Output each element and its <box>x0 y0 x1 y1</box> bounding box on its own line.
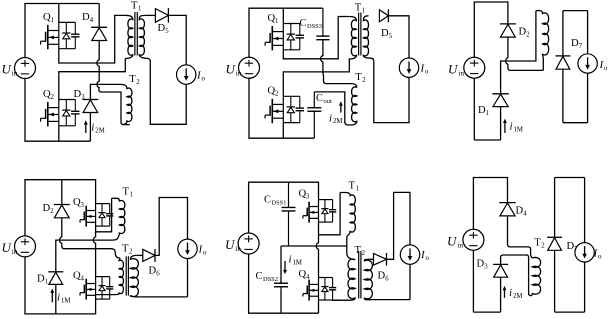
wire Io top lead (3) <box>587 11 589 54</box>
label C_DSS2 <box>256 271 278 283</box>
wire Io bottom (5) <box>409 264 411 299</box>
wire Io bottom lead (3) <box>587 73 589 123</box>
label i2M <box>91 122 104 135</box>
inductor T2 winding (6) <box>531 257 541 295</box>
wire node to Q4 drain (4) <box>95 249 97 277</box>
svg-text:D: D <box>381 28 389 39</box>
label Io (4) <box>198 244 208 257</box>
circuit 5: stacked switches with divider capacitors <box>225 181 430 314</box>
label T2 (4) <box>122 244 133 256</box>
wire D4 anode down with hops to T2 bottom <box>97 41 130 125</box>
wire T1 bypass to Q3 source (4) <box>96 198 112 232</box>
voltage source Uin (4) <box>15 236 36 257</box>
transformer T2 winding (2) <box>352 87 357 125</box>
svg-text:2: 2 <box>362 77 366 84</box>
wire T1 bottom exit to H1 (4) <box>113 237 119 240</box>
svg-text:1: 1 <box>486 110 489 117</box>
diode D3 <box>83 100 99 113</box>
wire Io top lead (6) <box>584 178 586 243</box>
svg-text:DSS2: DSS2 <box>263 276 278 283</box>
svg-text:C: C <box>264 195 271 206</box>
wire Q3 source down with hop joining node (4) <box>93 226 95 249</box>
svg-text:3: 3 <box>484 264 488 271</box>
svg-text:T: T <box>122 244 129 255</box>
wire T1 primary bottom to Q2 drain (2) <box>283 60 349 97</box>
wire Uin- down (6) <box>472 250 474 312</box>
label Uin (3) <box>448 62 464 78</box>
wire Q2 source to bottom rail (2) <box>282 123 284 139</box>
diode D2 <box>500 24 516 37</box>
current arrow i2M <box>84 120 88 133</box>
transistor Q3 <box>80 204 113 227</box>
svg-text:o: o <box>426 255 430 262</box>
capacitor C_DSS1 <box>282 182 296 246</box>
label D1 (4) <box>37 274 48 286</box>
transistor Q1 with body diode and capacitor <box>41 22 80 49</box>
svg-text:4: 4 <box>90 17 94 24</box>
svg-text:i: i <box>510 121 513 133</box>
wire Q4 source to bottom rail (4) <box>95 299 97 314</box>
transformer T2 core (5) <box>359 251 361 299</box>
svg-text:T: T <box>131 1 138 12</box>
transformer T1 primary winding <box>125 15 133 58</box>
svg-text:1: 1 <box>362 8 365 15</box>
current source Io (5) <box>400 245 419 264</box>
wire D7 anode down (6) <box>554 250 556 312</box>
wire output loop bottom (3) <box>563 122 588 124</box>
label Q1 (2) <box>268 13 279 25</box>
label i1M <box>510 121 523 134</box>
wire T1 primary bottom to Q2 drain <box>59 59 126 100</box>
wire Uin+ to top rail <box>25 4 99 59</box>
diode D2 (4) <box>54 205 70 218</box>
svg-text:6: 6 <box>385 276 389 283</box>
wire winding top bypass to D1 <box>501 11 536 94</box>
svg-text:T: T <box>123 187 130 198</box>
svg-text:1: 1 <box>45 279 48 286</box>
transformer T2 winding <box>121 84 132 124</box>
svg-text:2: 2 <box>362 250 366 257</box>
diode D1 <box>492 94 508 107</box>
wire D6 cathode loop (5) <box>387 192 411 259</box>
diode D4 <box>91 27 107 40</box>
transformer T1 core (2) <box>359 13 361 56</box>
voltage source Uin (3) <box>464 57 485 78</box>
svg-text:1: 1 <box>130 192 133 199</box>
svg-text:D: D <box>571 38 579 49</box>
capacitor C_DSS3 <box>316 8 329 40</box>
svg-text:T: T <box>349 181 356 192</box>
diode D5 <box>155 8 168 23</box>
wire Uin- down to bottom rail <box>25 78 90 141</box>
wire output loop top (3) <box>563 10 588 12</box>
svg-text:2M: 2M <box>513 293 522 300</box>
wire Q1 drain (2) <box>282 8 284 23</box>
svg-text:DSS1: DSS1 <box>272 200 287 207</box>
diode D3 (6) <box>493 264 508 277</box>
svg-text:2M: 2M <box>95 127 104 134</box>
capacitor C_DSS2 <box>274 281 288 289</box>
wire D2 anode down with hop to winding bottom <box>506 37 544 70</box>
transformer T1 core <box>135 12 137 56</box>
wire D3 cathode up and right to T2 top <box>90 84 120 99</box>
svg-text:1M: 1M <box>61 298 70 305</box>
label T1 (4) <box>123 187 133 199</box>
label i1M (5) <box>289 254 302 267</box>
label Q1 <box>43 12 54 24</box>
circuit 3: magnetizing branch with clamp diodes D1 D2 <box>448 2 608 140</box>
label Io (2) <box>420 63 430 76</box>
label Io (5) <box>420 249 430 262</box>
wire output loop top (6) <box>555 177 585 179</box>
wire bypass corner to T2 bottom <box>345 122 352 126</box>
label D5 <box>158 23 170 35</box>
label D3 <box>74 89 86 101</box>
label T1 (2) <box>355 3 365 15</box>
wire D6 cathode up and over to Io (4) <box>155 198 188 256</box>
wire C_DSS2 top lead corner (5) <box>280 246 282 283</box>
wire D2 anode down with hop to node (4) <box>60 218 120 258</box>
wire bottom rail (6) <box>473 311 500 313</box>
current arrow i1M <box>503 119 507 133</box>
svg-text:T: T <box>355 3 362 14</box>
transformer T2 primary winding (5) <box>333 259 356 300</box>
svg-text:i: i <box>329 113 332 125</box>
svg-text:in: in <box>457 241 463 250</box>
current source Io (3) <box>578 54 597 73</box>
inductor T1 winding (4) <box>112 198 125 237</box>
wire Uin+ to top rail (4) <box>25 180 96 237</box>
svg-text:in: in <box>12 247 18 256</box>
svg-text:i: i <box>91 122 94 134</box>
label Q4 (5) <box>299 269 311 281</box>
svg-text:D: D <box>567 241 575 252</box>
svg-text:in: in <box>12 69 18 78</box>
svg-text:2: 2 <box>275 91 279 98</box>
label Q2 (2) <box>268 86 280 98</box>
svg-text:out: out <box>324 98 332 105</box>
label D5 (2) <box>381 28 393 40</box>
wire Q1 drain <box>58 4 60 23</box>
transistor Q2 (2) <box>265 96 304 123</box>
label D7 <box>571 38 583 50</box>
wire output loop bottom (2) <box>374 61 409 122</box>
label C_out <box>316 93 332 105</box>
wire C_DSS3 bottom with hop to T2 top <box>321 40 357 88</box>
label Io (6) <box>593 248 603 261</box>
label D6 (5) <box>378 271 390 283</box>
svg-text:1: 1 <box>356 186 359 193</box>
capacitor C_out <box>307 92 321 138</box>
svg-text:T: T <box>355 72 362 83</box>
label Q3 <box>73 197 85 209</box>
wire D3 cathode up to bypass (6) <box>501 255 532 296</box>
transistor Q1 (2) <box>265 24 304 51</box>
wire D1 cathode to H1 (4) <box>56 240 113 272</box>
current arrow i2M (2) <box>339 101 343 112</box>
svg-text:in: in <box>458 69 464 78</box>
circuit 4: two-transformer forward with clamp diodes <box>2 180 208 314</box>
voltage source Uin (5) <box>238 233 259 254</box>
svg-text:D: D <box>158 23 166 34</box>
wire Q1 source to T1 primary return <box>59 15 126 63</box>
svg-text:1: 1 <box>138 6 141 13</box>
label i2M (6) <box>509 287 522 300</box>
transformer T1 secondary winding <box>139 15 150 61</box>
svg-text:o: o <box>425 69 429 76</box>
label Uin (2) <box>226 62 242 78</box>
wire output loop bottom <box>150 62 186 125</box>
svg-text:D: D <box>519 27 527 38</box>
inductor winding (3) <box>536 11 549 71</box>
wire Io bottom lead (6) <box>584 262 586 312</box>
circuit 2: flyback with snubber capacitors <box>226 3 430 139</box>
svg-text:D: D <box>516 206 524 217</box>
label Uin (4) <box>2 240 18 256</box>
label D3 (6) <box>477 259 489 271</box>
transformer T2 core (4) <box>126 256 128 295</box>
transformer T2 secondary winding (4) <box>130 255 187 297</box>
svg-text:1: 1 <box>275 18 278 25</box>
transformer T1 primary winding (2) <box>349 17 356 61</box>
label Uin <box>2 62 18 78</box>
wire Q4 cell to T2 primary bottom (5) <box>333 299 340 301</box>
transistor Q3 (5) <box>303 200 336 223</box>
svg-text:o: o <box>202 76 206 83</box>
label i1M (4) <box>57 292 70 305</box>
voltage source Uin (2) <box>239 57 260 78</box>
svg-text:2: 2 <box>136 79 140 86</box>
current source Io (6) <box>575 243 594 262</box>
voltage source Uin <box>15 58 36 79</box>
inductor T1 winding (5) <box>340 193 355 260</box>
svg-text:1M: 1M <box>514 127 523 134</box>
wire D1 anode to bottom rail (4) <box>55 284 57 314</box>
svg-text:2: 2 <box>541 243 545 250</box>
svg-text:5: 5 <box>165 28 169 35</box>
diode D6 (5) <box>374 253 387 266</box>
wire D7 cathode lead (3) <box>562 11 564 56</box>
wire H_b cap node (5) <box>281 245 347 247</box>
label C_DSS1 <box>264 195 286 207</box>
svg-text:5: 5 <box>389 33 393 40</box>
wire T2 secondary top to D6 (4) <box>136 254 143 256</box>
svg-text:1: 1 <box>51 17 54 24</box>
wire Uin- to bottom rail (2) <box>249 78 314 138</box>
current arrow i1M (4) <box>50 289 54 303</box>
svg-text:T: T <box>129 74 136 85</box>
current source Io (4) <box>178 239 197 258</box>
wire top rail to D4 <box>98 4 100 28</box>
svg-text:2: 2 <box>129 249 133 256</box>
svg-text:D: D <box>74 89 82 100</box>
wire D5 cathode to Io <box>168 15 186 65</box>
svg-text:o: o <box>598 254 602 261</box>
wire D2 cathode lead (4) <box>61 180 63 205</box>
label D4 (6) <box>516 206 528 218</box>
wire Q4 source to bottom rail (5) <box>318 300 320 313</box>
label T2 (5) <box>355 245 366 257</box>
label Uin (6) <box>447 234 463 250</box>
label T2 (6) <box>534 238 545 250</box>
wire D3 anode to bottom rail (6) <box>500 277 502 312</box>
svg-text:o: o <box>203 250 207 257</box>
svg-text:2: 2 <box>51 94 55 101</box>
svg-text:3: 3 <box>306 194 310 201</box>
label Uin (5) <box>225 237 241 253</box>
svg-text:i: i <box>509 287 512 299</box>
circuit 6: magnetizing branch with clamp diodes D3 D4 <box>447 178 602 313</box>
current arrow i2M (6) <box>503 286 507 298</box>
svg-text:D: D <box>37 274 45 285</box>
svg-text:3: 3 <box>81 202 85 209</box>
label D6 <box>149 266 161 278</box>
wire Q3 source to Q4 drain with hop (5) <box>316 222 318 277</box>
svg-text:1M: 1M <box>293 260 302 267</box>
wire D5 cathode to Io (2) <box>389 16 410 58</box>
label Q2 <box>43 89 55 101</box>
svg-text:4: 4 <box>81 276 85 283</box>
label Q4 <box>73 271 85 283</box>
wire T1 bypass (5) <box>319 193 341 235</box>
svg-text:i: i <box>57 292 60 304</box>
diode D6 <box>143 249 155 262</box>
wire Uin+ to D2 (3) <box>474 2 508 58</box>
label T1 (5) <box>349 181 359 193</box>
wire Uin+ to D4 (6) <box>473 178 507 230</box>
wire C_DSS2 bottom lead (5) <box>280 289 282 313</box>
svg-text:D: D <box>149 266 157 277</box>
wire Q1 source to T1 primary return (2) <box>283 17 349 59</box>
transformer T2 secondary winding (5) <box>364 259 410 299</box>
svg-text:o: o <box>604 65 608 72</box>
svg-text:D: D <box>477 259 485 270</box>
svg-text:C: C <box>256 271 263 282</box>
diode D4 (6) <box>499 203 515 216</box>
label D2 (4) <box>43 203 55 215</box>
svg-text:6: 6 <box>156 271 160 278</box>
diode D7 (6) <box>547 237 562 250</box>
label D7 (6) <box>567 241 579 253</box>
svg-text:2: 2 <box>50 208 54 215</box>
wire T1 secondary top to D5 <box>145 14 156 16</box>
svg-text:C: C <box>316 93 323 104</box>
label i2M (2) <box>329 113 342 126</box>
transformer T1 secondary winding (2) <box>363 16 373 61</box>
label Q3 (5) <box>299 189 311 201</box>
wire D7 anode down (3) <box>562 69 564 123</box>
svg-text:C: C <box>300 18 307 29</box>
label Io <box>196 70 206 83</box>
wire D7 cathode lead (6) <box>554 178 556 238</box>
transformer T2 primary winding (4) <box>96 258 124 295</box>
label T1 <box>131 1 141 13</box>
wire Uin+ to top rail (2) <box>249 8 323 58</box>
label D2 <box>519 27 531 39</box>
transistor Q2 with body diode and capacitor <box>41 100 80 127</box>
label T2 <box>129 74 140 86</box>
svg-text:D: D <box>43 203 51 214</box>
circuit 1: dual-switch flyback with clamp diodes <box>2 1 206 142</box>
wire D4 anode to T2 top (6) <box>508 216 533 258</box>
current source Io <box>177 65 196 84</box>
label T2 (2) <box>355 72 366 84</box>
svg-text:D: D <box>478 105 486 116</box>
svg-text:i: i <box>289 254 292 266</box>
svg-text:in: in <box>236 69 242 78</box>
current source Io (2) <box>399 58 418 77</box>
wire Uin- to bottom rail (5) <box>249 254 319 314</box>
wire Uin+ to top rail (5) <box>249 182 319 233</box>
diode D5 (2) <box>379 9 388 22</box>
label C_DSS3 <box>300 18 322 30</box>
wire output loop bottom (6) <box>555 311 585 313</box>
diode D1 (4) <box>48 272 63 285</box>
svg-text:7: 7 <box>579 43 583 50</box>
wire Uin- to bottom rail (4) <box>25 256 96 314</box>
diode D7 <box>555 56 570 69</box>
svg-text:2: 2 <box>526 32 530 39</box>
wire D3 anode to bottom rail <box>89 113 91 142</box>
wire Uin- down (3) <box>473 78 475 140</box>
svg-text:in: in <box>235 244 241 253</box>
transistor Q4 <box>80 277 113 300</box>
label D4 <box>82 12 94 24</box>
wire Io bottom (4) <box>187 259 189 297</box>
current arrow i1M (5) <box>283 261 287 274</box>
svg-text:4: 4 <box>523 211 527 218</box>
svg-text:DSS3: DSS3 <box>307 23 322 30</box>
transistor Q4 (5) <box>303 278 336 301</box>
wire D1 anode to bottom rail (3) <box>500 107 502 140</box>
svg-text:D: D <box>82 12 90 23</box>
svg-text:D: D <box>378 271 386 282</box>
svg-text:4: 4 <box>306 274 310 281</box>
label Io (3) <box>599 59 609 72</box>
svg-text:T: T <box>534 238 541 249</box>
wire Q2 source to bottom rail <box>58 126 60 141</box>
wire bottom rail (3) <box>474 139 500 141</box>
voltage source Uin (6) <box>463 229 484 250</box>
wire C_out top to T2 bottom bypass <box>314 92 345 123</box>
svg-text:2M: 2M <box>333 118 342 125</box>
label D1 <box>478 105 489 117</box>
